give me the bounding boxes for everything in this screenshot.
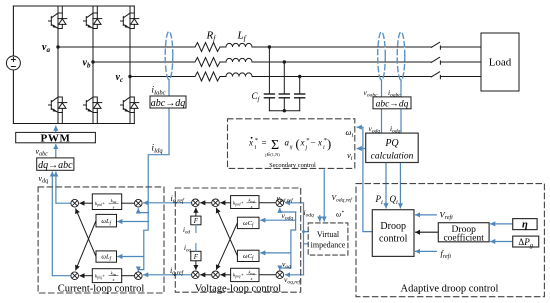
sum junction current TR [135, 199, 143, 207]
svg-text:control: control [379, 234, 408, 245]
svg-text:j: j [305, 145, 308, 151]
wire: Q_i into droop control [399, 163, 401, 208]
svg-text:frefi: frefi [441, 248, 452, 260]
wire: top DC rail [13, 5, 134, 7]
svg-text:F: F [193, 217, 199, 225]
capacitor Cf phase c [295, 77, 305, 111]
svg-text:F: F [193, 253, 199, 261]
wire: v_i into secondary control [357, 148, 366, 150]
transistor Q1 (IGBT + diode, leg a top) [49, 13, 67, 29]
svg-text:Voltage-loop control: Voltage-loop control [195, 284, 281, 295]
wire: phase b line [93, 61, 481, 63]
wire: i_ldq staircase down to sum BL [138, 213, 148, 271]
voltage loop: F block upper [191, 216, 201, 225]
wire: eta into droop coefficient [491, 223, 513, 225]
sum junction current TL [71, 199, 79, 207]
wire: P_i into droop control [385, 163, 387, 208]
svg-text:Adaptive droop control: Adaptive droop control [401, 283, 499, 294]
resistor Rf phase b [195, 58, 220, 67]
svg-text:kpvd+: kpvd+ [233, 201, 244, 206]
wire: phase a line [58, 46, 481, 48]
svg-text:Vodq,ref: Vodq,ref [332, 193, 354, 204]
wire: left DC bus [12, 6, 14, 124]
wire: i_odq down to PQ [400, 109, 402, 133]
capacitor Cf phase b [279, 62, 289, 111]
svg-text:iod: iod [183, 226, 190, 236]
wire: branch to wLf lower [118, 256, 144, 258]
current loop: PI block q [92, 269, 121, 283]
wire: inverter leg b [92, 6, 94, 124]
sum junction voltage mid top [212, 199, 220, 207]
wire: dPg into droop coefficient [491, 241, 513, 243]
svg-text:Current-loop control: Current-loop control [58, 284, 145, 295]
svg-text:ioq: ioq [184, 244, 191, 254]
svg-text:voq,ref: voq,ref [284, 275, 302, 286]
svg-text:impedance: impedance [311, 241, 346, 250]
svg-text:): ) [327, 137, 331, 151]
svg-text:id,ref: id,ref [171, 194, 186, 205]
switch breaker phase c [431, 72, 440, 79]
dq-abc transform box [37, 158, 74, 170]
switch breaker phase a [431, 42, 440, 49]
sum junction voltage mid bottom [212, 271, 220, 279]
label PI current q [95, 270, 119, 282]
voltage loop: PI block d [231, 196, 259, 209]
voltage loop decoupling diagonal lower-to-midT [216, 208, 237, 256]
svg-text:=: = [262, 138, 267, 148]
svg-text:s: s [113, 205, 115, 210]
svg-text:Secondary control: Secondary control [269, 162, 316, 169]
label PI voltage q [233, 269, 257, 281]
voltage loop wires q row [259, 274, 276, 276]
sum junction voltage BL [192, 271, 200, 279]
transistor Q6 (IGBT + diode, leg c bottom) [121, 97, 139, 113]
wire: inverter leg c [129, 6, 131, 124]
voltage loop wires d row [259, 202, 276, 204]
svg-text:Cf: Cf [252, 91, 261, 103]
wire: bottom diode branch drops [62, 113, 134, 124]
svg-text:ω*: ω* [336, 210, 344, 219]
node vb [91, 60, 94, 63]
abc-dq transform box (inverter current) [150, 96, 186, 108]
PWM box [16, 132, 96, 142]
svg-text:coefficient: coefficient [443, 233, 484, 244]
svg-text:s: s [113, 277, 115, 282]
sum junction voltage TL [192, 199, 200, 207]
wire: v_od_ref arrow [286, 202, 304, 204]
current loop decoupling diagonal lower-to-TL [76, 209, 96, 257]
wire: inverter leg a [57, 6, 59, 124]
label PI current d [95, 198, 119, 210]
current loop wires d row [122, 202, 135, 204]
sum junction voltage TR [276, 199, 284, 207]
capacitor Cf phase a [264, 47, 274, 111]
svg-text:Pi: Pi [375, 194, 384, 206]
wire: v_q output up to dq-abc [52, 172, 70, 276]
inductor Lf phase c [226, 73, 252, 77]
svg-text:kpiq+: kpiq+ [95, 274, 105, 279]
svg-text:PWM: PWM [41, 132, 71, 144]
svg-text:j∈(1,N): j∈(1,N) [264, 152, 280, 158]
svg-text:vi: vi [347, 150, 353, 162]
dashed box: Virtual impedance [308, 223, 348, 255]
sensor ellipse i_labc [165, 32, 173, 80]
svg-text:Vrefi: Vrefi [440, 209, 454, 221]
svg-text:vod,ref: vod,ref [277, 193, 295, 204]
Load box [481, 33, 519, 91]
dashed box: Adaptive droop control [356, 184, 544, 297]
voltage loop: F block lower [191, 251, 201, 260]
svg-text:iq,ref: iq,ref [170, 266, 185, 277]
switch breaker phase b [431, 57, 440, 64]
svg-text:Virtual: Virtual [317, 230, 340, 239]
dashed box: Voltage-loop control [175, 188, 300, 292]
svg-text:vabc: vabc [36, 147, 49, 158]
svg-text:Lf: Lf [237, 30, 247, 43]
voltage loop decoupling diagonal upper-to-midB [216, 223, 237, 270]
wire: omega_i riser from droop to secondary [357, 127, 372, 231]
voltage loop: wCf block upper [237, 217, 259, 228]
wire: virtual impedance out to voltage refs [304, 203, 309, 275]
wire: i_ldq line down into current loop [138, 108, 169, 213]
svg-text:(: ( [296, 137, 300, 151]
wire: v_odq feedback into sum TR [280, 208, 296, 212]
svg-text:calculation: calculation [371, 151, 414, 161]
svg-text:x: x [317, 138, 322, 148]
F lower input stub [195, 244, 197, 252]
wire: bottom DC rail [13, 123, 134, 125]
node vc [128, 75, 131, 78]
wire: top diode branch risers [62, 6, 134, 13]
wire: i_d_ref voltage loop to current loop [144, 202, 192, 204]
PQ calculation box [366, 133, 419, 162]
voltage loop: PI block q [231, 268, 259, 281]
svg-text:x: x [300, 138, 305, 148]
svg-text:*: * [306, 137, 310, 144]
resistor Rf phase c [195, 72, 220, 81]
svg-text:abc→dq: abc→dq [376, 99, 409, 109]
svg-text:Rf: Rf [206, 30, 217, 43]
svg-text:kpid+: kpid+ [95, 202, 105, 207]
svg-text:dq→abc: dq→abc [38, 160, 73, 171]
eta box [513, 219, 537, 230]
label PI voltage d [233, 197, 257, 209]
svg-text:voabc: voabc [364, 88, 379, 99]
svg-text:Load: Load [489, 57, 512, 69]
wire: i_oabc sense down [400, 80, 402, 97]
delta Pg box [513, 236, 539, 247]
current loop: wLf block lower [96, 251, 117, 262]
wire: i_odq stub into virtual impedance [319, 216, 321, 222]
svg-text:kpvq+: kpvq+ [233, 273, 244, 278]
sum junction voltage BR [276, 271, 284, 279]
svg-text:x: x [248, 138, 253, 148]
resistor Rf phase a [195, 43, 220, 52]
wire: droop coefficient to droop control (black) [416, 231, 439, 233]
wire: i_q_ref voltage loop to current loop [144, 274, 192, 276]
dashed box: Secondary control [228, 119, 355, 169]
svg-text:Droop: Droop [380, 221, 406, 232]
F upper input stub [195, 225, 197, 233]
transistor Q2 (IGBT + diode, leg b top) [84, 13, 102, 29]
wire: v_oabc sense down [381, 80, 383, 97]
wire: PWM gate drive arrow [55, 126, 57, 132]
current loop wires q row [122, 275, 135, 277]
secondary control consensus formula [248, 137, 331, 158]
DC source Vdc [6, 56, 20, 70]
Droop coefficient box [438, 223, 489, 242]
svg-text:*: * [255, 137, 259, 144]
svg-text:vc: vc [116, 72, 124, 84]
sum junction current BL [71, 272, 79, 280]
wire: branch to wCf lower [261, 252, 291, 254]
wire: v_odq down to PQ [381, 109, 383, 133]
svg-text:ωi: ωi [346, 127, 354, 139]
svg-text:iIdq: iIdq [152, 143, 164, 155]
wire: f_refi stub into droop control [416, 250, 437, 252]
svg-text:ij: ij [290, 144, 294, 150]
svg-text:voq: voq [282, 260, 291, 271]
Droop control box [372, 210, 414, 257]
wire: V_odq_ref down to virtual impedance [323, 170, 325, 221]
wire: v_abc arrow dq-abc to PWM [55, 145, 57, 158]
wire: v_d output up to dq-abc [56, 172, 71, 203]
svg-text:Qi: Qi [390, 194, 399, 206]
svg-text:−: − [311, 138, 316, 148]
wire: branch to wLf upper [118, 221, 148, 223]
svg-text:iodq: iodq [304, 208, 315, 219]
svg-text:iIabc: iIabc [152, 85, 166, 97]
svg-text:ioabc: ioabc [388, 88, 401, 99]
wire: V_refi stub into droop control [416, 214, 437, 216]
svg-text:Σ: Σ [271, 138, 279, 153]
svg-text:η: η [522, 220, 528, 231]
current loop: wLf block upper [96, 214, 117, 227]
svg-text:i: i [323, 145, 325, 151]
inductor Lf phase a [226, 43, 252, 47]
svg-text:s: s [251, 204, 253, 209]
wire: capacitor common rail [269, 110, 299, 112]
svg-text:PQ: PQ [384, 138, 399, 149]
node va [56, 45, 59, 48]
wire: v_odq staircase down to sum BR [280, 212, 296, 270]
wire: v_oq_ref arrow [286, 274, 304, 276]
svg-text:abc→dq: abc→dq [151, 98, 185, 109]
svg-text:vdq: vdq [39, 174, 49, 185]
F lower output arrow [195, 261, 197, 270]
voltage loop: wCf block lower [237, 250, 259, 261]
current loop: PI block d [92, 194, 121, 210]
svg-text:i: i [255, 145, 257, 151]
svg-text:vb: vb [83, 58, 91, 70]
wire: phase c line [130, 76, 481, 78]
sensor ellipse v_oabc [378, 32, 386, 80]
inductor Lf phase b [226, 58, 252, 62]
svg-text:s: s [251, 276, 253, 281]
node cap taps [268, 45, 302, 112]
F upper output arrow [195, 208, 197, 216]
svg-text:va: va [42, 42, 50, 54]
transistor Q5 (IGBT + diode, leg b bottom) [84, 97, 102, 113]
wire: i_labc sense line down to abc-dq [168, 80, 170, 97]
current loop decoupling diagonal upper-to-BL [76, 221, 96, 270]
transistor Q3 (IGBT + diode, leg c top) [121, 13, 139, 29]
sum junction current BR [135, 272, 143, 280]
wire: branch to wCf upper [261, 219, 296, 221]
transistor Q4 (IGBT + diode, leg a bottom) [49, 97, 67, 113]
abc-dq transform box (output) [373, 97, 411, 109]
svg-text:iodq: iodq [390, 124, 401, 135]
sensor ellipse i_oabc [397, 32, 405, 80]
dashed box: Current-loop control [38, 187, 164, 293]
